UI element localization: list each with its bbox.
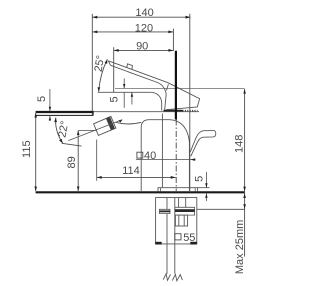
svg-text:25°: 25° [93,54,107,72]
hex nut [175,215,187,226]
centerline thick upper part [175,51,177,120]
dim 115 line [35,113,37,191]
deck line lower [36,191,245,193]
front view: saddle curve between lever and dome [116,122,142,124]
front view: lever [94,116,116,135]
svg-text:120: 120 [135,22,153,34]
washer left stub [160,209,171,213]
svg-text:22°: 22° [56,120,71,139]
side view: body top-right corner [152,92,162,110]
under-deck box [156,198,197,244]
front view: body column left edge [161,114,163,188]
front view: spout hook [190,131,216,157]
angle 22 base leg [62,143,82,146]
washer plate [175,207,195,215]
svg-text:5: 5 [193,176,205,182]
extension line x=173.4 for 120/90 [172,29,174,51]
dim 90 line [114,49,174,51]
dim 114 line [97,176,176,178]
side view: handle upper edge [108,61,168,83]
dim 5 right (escutcheon) [198,187,210,189]
extension line x=96.7 [96,140,98,181]
pipe break zigzag left [163,274,170,281]
extension line x=113.7 for 90 [113,47,115,92]
dim 89 line [77,130,79,191]
side view: handle notch [127,64,133,70]
svg-text:55: 55 [183,232,195,244]
label square 55 [175,234,181,240]
svg-text:148: 148 [233,135,245,153]
centerline dash-dot [175,120,177,192]
dim 120 line [92,31,173,33]
dim 148 + max25 shaft [244,89,246,257]
upper deck lower line [36,114,94,116]
svg-text:5: 5 [36,96,48,102]
side view: base dark bar [164,110,183,112]
leader line 40 [136,159,196,161]
stud lines [179,198,186,208]
extension line left (x=92.3) [91,14,93,116]
front view: lever axis line [68,120,122,141]
front view: lever cap lines [106,117,114,130]
upper deck end tick [92,111,94,116]
svg-text:90: 90 [136,41,148,53]
svg-text:Max 25mm: Max 25mm [234,220,246,274]
dim 5 left (deck plate) [49,89,51,121]
side view: beak left face [166,84,168,90]
angle 22 arc [56,118,63,144]
dim 89 tick [79,129,98,131]
angle 25 arc [99,59,108,91]
svg-text:114: 114 [122,165,140,177]
dim 5 (spout tip height) [123,79,125,108]
side view: handle tip cap [108,61,110,66]
extension line right (x=189.8), also front-view body right edge [189,14,191,191]
dim 140 line [92,16,190,18]
side view: base dotted bar [183,110,198,112]
svg-text:140: 140 [135,7,153,19]
svg-text:89: 89 [66,156,78,168]
side view: spout beak [166,83,199,110]
label square 40 [137,152,143,158]
box feet [155,242,162,245]
body-top reference line y=92.3 [98,91,152,93]
upper deck line thin continuation [93,111,199,113]
svg-text:115: 115 [21,140,33,158]
upper deck line thick [36,111,94,113]
svg-text:5: 5 [109,96,121,102]
escutcheon plate [158,188,198,192]
max25 reference line [197,208,245,210]
side view: handle lower edge and neck [111,65,167,110]
supply pipes [167,198,175,274]
front view: body dome [141,120,189,191]
spout-top reference line y=88.4 [115,87,245,89]
pipe break zigzag right [172,274,182,281]
